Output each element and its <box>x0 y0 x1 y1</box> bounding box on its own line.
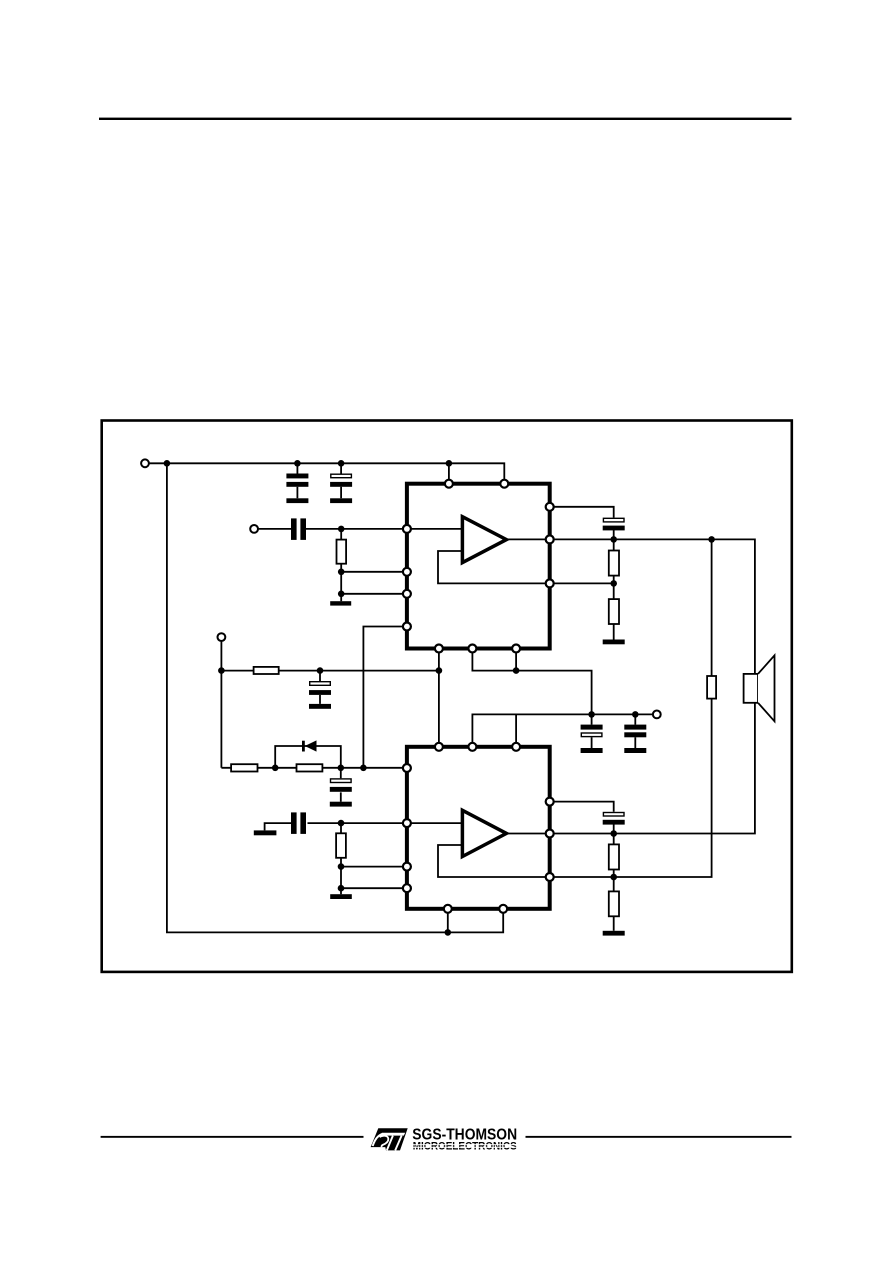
svg-text:MICROELECTRONICS: MICROELECTRONICS <box>413 1141 517 1153</box>
